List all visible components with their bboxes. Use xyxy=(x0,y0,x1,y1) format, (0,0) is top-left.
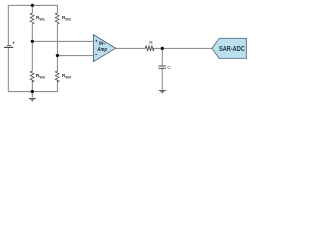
capacitor C xyxy=(159,66,166,68)
svg-text:W1: W1 xyxy=(39,18,45,22)
wire bottom rail xyxy=(8,91,58,93)
resistor RW3 xyxy=(30,71,34,82)
wire capacitor top lead xyxy=(161,48,163,65)
wire branch1 vertical xyxy=(31,5,33,98)
svg-text:R: R xyxy=(149,40,153,46)
SAR-ADC block xyxy=(212,38,246,58)
in-amp minus sign xyxy=(95,53,97,55)
node junction dot top rail xyxy=(31,4,34,7)
ground bridge bottom xyxy=(29,99,36,101)
wire resistor R to SAR-ADC xyxy=(154,47,213,49)
ground capacitor xyxy=(159,91,166,93)
wire top rail xyxy=(8,4,58,6)
node junction dot bottom rail xyxy=(31,90,34,93)
in-amp plus sign xyxy=(95,40,97,42)
wire left vertical upper xyxy=(7,5,9,45)
battery V excitation xyxy=(4,42,14,48)
svg-text:W3: W3 xyxy=(39,76,45,80)
wire branch2 vertical xyxy=(56,5,58,92)
svg-text:In-: In- xyxy=(99,41,105,47)
svg-text:SAR-ADC: SAR-ADC xyxy=(219,46,245,53)
resistor RW1 xyxy=(30,13,34,24)
wire in-amp output to resistor R xyxy=(116,47,146,49)
wire capacitor bottom lead xyxy=(161,69,163,91)
svg-text:C: C xyxy=(167,65,171,71)
node junction dot bridge right mid xyxy=(56,54,59,57)
node junction dot bridge left mid xyxy=(31,40,34,43)
svg-text:Amp: Amp xyxy=(97,47,107,53)
resistor RW4 xyxy=(55,71,59,82)
resistor RW2 xyxy=(55,13,59,24)
resistor R filter xyxy=(145,46,154,51)
wire bridge right mid to in-amp minus input xyxy=(57,55,93,57)
svg-text:W2: W2 xyxy=(65,18,71,22)
wire bridge left mid to in-amp plus input xyxy=(32,40,93,42)
svg-text:W4: W4 xyxy=(65,76,71,80)
node junction dot RC filter xyxy=(161,47,164,50)
op-amp in-amp U1 xyxy=(93,35,115,62)
wire left vertical lower xyxy=(7,48,9,92)
